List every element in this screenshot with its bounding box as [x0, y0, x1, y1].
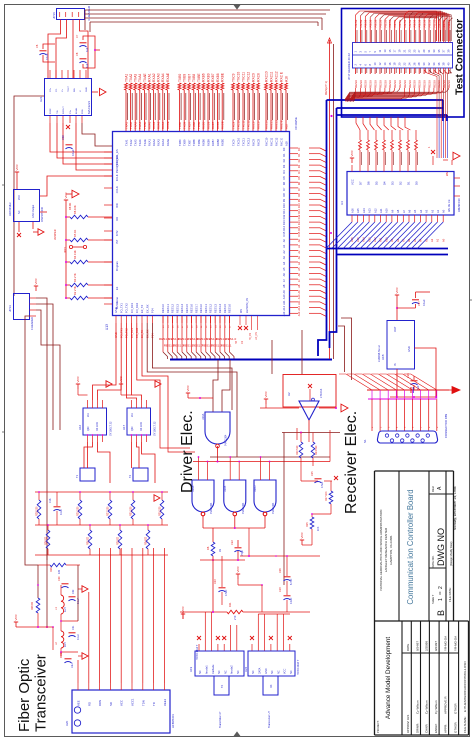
- svg-text:JP13: JP13: [8, 305, 12, 312]
- svg-text:RXA1: RXA1: [147, 73, 151, 82]
- svg-text:RXB9: RXB9: [206, 139, 210, 146]
- svg-text:U10A: U10A: [202, 413, 205, 420]
- svg-text:RES9: RES9: [388, 19, 392, 27]
- svg-text:A12: A12: [297, 305, 301, 310]
- svg-text:DWG NO: DWG NO: [436, 528, 446, 566]
- svg-text:A18: A18: [284, 141, 288, 146]
- svg-text:VCC: VCC: [119, 375, 123, 382]
- svg-text:D13: D13: [282, 220, 286, 225]
- svg-text:C26: C26: [279, 568, 282, 573]
- svg-text:RES9: RES9: [393, 80, 397, 88]
- svg-text:D1: D1: [282, 153, 286, 157]
- svg-text:Advance Model Development: Advance Model Development: [385, 637, 392, 720]
- svg-text:A3: A3: [297, 256, 301, 260]
- svg-text:TXA2: TXA2: [129, 139, 133, 146]
- svg-text:Communicat ion Controller Boar: Communicat ion Controller Board: [406, 489, 415, 604]
- svg-text:RXC10: RXC10: [264, 137, 268, 146]
- svg-text:RES9: RES9: [364, 80, 368, 88]
- svg-text:A11: A11: [282, 300, 286, 305]
- svg-text:EX_TX: EX_TX: [140, 305, 144, 313]
- svg-text:RXB7: RXB7: [211, 73, 215, 82]
- svg-text:4 HEADER: 4 HEADER: [87, 5, 91, 21]
- svg-text:NC: NC: [237, 670, 240, 674]
- svg-text:TXC11: TXC11: [241, 138, 245, 146]
- svg-text:TXB7: TXB7: [187, 139, 191, 146]
- svg-text:DATA: DATA: [259, 667, 262, 674]
- svg-text:RXBE: RXBE: [221, 72, 225, 82]
- svg-text:D: D: [406, 146, 410, 148]
- svg-text:D12: D12: [282, 214, 286, 219]
- svg-text:Cy Wilson: Cy Wilson: [416, 700, 420, 714]
- svg-text:RXB9: RXB9: [206, 121, 210, 129]
- svg-text:VCC: VCC: [284, 669, 287, 674]
- svg-text:A11: A11: [379, 208, 383, 213]
- svg-text:RXA4: RXA4: [161, 121, 165, 129]
- svg-text:A18: A18: [284, 124, 288, 129]
- svg-text:R27 130: R27 130: [107, 506, 110, 516]
- svg-text:TXA2: TXA2: [129, 74, 133, 82]
- svg-text:9/24/97: 9/24/97: [416, 641, 420, 651]
- svg-text:Monday, December 14, 1998: Monday, December 14, 1998: [453, 486, 457, 530]
- svg-text:FO_RX2: FO_RX2: [135, 302, 139, 313]
- svg-text:RES1.1: RES1.1: [166, 304, 170, 313]
- svg-text:TXA3: TXA3: [134, 74, 138, 82]
- svg-text:0.1uF: 0.1uF: [77, 633, 80, 640]
- svg-text:D6: D6: [282, 181, 286, 185]
- svg-text:LT1016: LT1016: [319, 388, 323, 398]
- svg-text:0.5uF: 0.5uF: [225, 589, 228, 596]
- svg-text:GND Output: GND Output: [32, 205, 35, 218]
- svg-text:INVAL: INVAL: [75, 107, 78, 114]
- svg-text:1uF: 1uF: [85, 47, 89, 52]
- svg-text:C1+: C1+: [70, 109, 72, 114]
- svg-text:RES1.5: RES1.5: [223, 304, 227, 313]
- svg-text:NATIONAL AERONAUTICS AND SP: NATIONAL AERONAUTICS AND SPACE ADMINISTR…: [379, 510, 383, 591]
- svg-text:TXB7: TXB7: [187, 74, 191, 82]
- svg-text:A10: A10: [282, 294, 286, 299]
- svg-text:R15: R15: [306, 522, 309, 527]
- svg-text:U10D: U10D: [254, 485, 257, 492]
- svg-text:LANGLEY RESEARCH CENTER: LANGLEY RESEARCH CENTER: [384, 527, 388, 572]
- svg-text:A15: A15: [356, 208, 360, 213]
- svg-text:RXC8: RXC8: [256, 121, 260, 129]
- svg-text:NC: NC: [252, 670, 255, 674]
- svg-text:R6: R6: [206, 546, 210, 550]
- svg-text:TXAE: TXAE: [143, 139, 147, 146]
- svg-text:RES9: RES9: [398, 80, 402, 88]
- svg-text:RXB8: RXB8: [216, 73, 220, 82]
- svg-text:R26 82: R26 82: [31, 601, 34, 610]
- svg-text:R4 13K: R4 13K: [73, 250, 77, 259]
- svg-text:R28 130: R28 130: [36, 506, 39, 516]
- svg-text:RXC E: RXC E: [279, 71, 283, 82]
- svg-text:TXAE: TXAE: [143, 73, 147, 82]
- svg-text:RXC9: RXC9: [251, 121, 255, 129]
- svg-text:NC: NC: [18, 210, 21, 214]
- svg-text:74AC1004: 74AC1004: [242, 502, 245, 514]
- svg-text:FON: FON: [82, 109, 84, 114]
- svg-text:D11: D11: [297, 209, 301, 214]
- svg-text:SY10ELT 22: SY10ELT 22: [109, 421, 113, 436]
- svg-text:C6: C6: [35, 44, 39, 48]
- svg-text:A2: A2: [430, 238, 434, 242]
- svg-text:VCC: VCC: [76, 375, 80, 382]
- svg-text:D15: D15: [297, 231, 301, 236]
- svg-text:0.1uF: 0.1uF: [290, 597, 293, 604]
- svg-text:NC: NC: [224, 670, 227, 674]
- svg-text:D15: D15: [282, 231, 286, 236]
- svg-text:D8: D8: [297, 193, 301, 197]
- svg-text:TXC9: TXC9: [231, 73, 235, 82]
- svg-text:U4: U4: [340, 201, 344, 205]
- svg-text:TXC10: TXC10: [236, 137, 240, 146]
- svg-text:RES9: RES9: [418, 80, 422, 88]
- svg-text:R30 82: R30 82: [87, 536, 90, 545]
- svg-text:RES9: RES9: [437, 19, 441, 27]
- svg-text:Transceiver U7: Transceiver U7: [268, 711, 271, 728]
- svg-text:VCC: VCC: [395, 286, 399, 293]
- svg-text:VCC1: VCC1: [131, 698, 135, 706]
- svg-text:RXC9: RXC9: [251, 139, 255, 146]
- svg-text:RXC11: RXC11: [269, 120, 273, 129]
- svg-text:RXB9: RXB9: [206, 73, 210, 82]
- svg-text:D4: D4: [297, 170, 301, 174]
- svg-text:GND: GND: [86, 87, 88, 92]
- svg-text:NC: NC: [199, 670, 202, 674]
- svg-text:RES1.6: RES1.6: [228, 304, 232, 313]
- svg-text:RES9: RES9: [374, 80, 378, 88]
- svg-text:TXB0: TXB0: [178, 139, 182, 146]
- svg-text:R25 130: R25 130: [77, 506, 80, 516]
- svg-text:130: 130: [58, 569, 61, 574]
- svg-text:D: D: [390, 146, 394, 148]
- svg-text:RXA4: RXA4: [161, 73, 165, 82]
- svg-text:R2 27K: R2 27K: [73, 286, 77, 295]
- svg-text:MS6H4T4000: MS6H4T4000: [41, 207, 44, 222]
- svg-text:RES9: RES9: [427, 19, 431, 27]
- svg-text:D13: D13: [297, 220, 301, 225]
- svg-text:C32: C32: [72, 589, 75, 594]
- svg-text:APPROV: ALS: APPROV: ALS: [406, 715, 410, 733]
- svg-text:TXA4: TXA4: [138, 139, 142, 146]
- svg-text:A0: A0: [282, 238, 286, 242]
- svg-text:0.5uF: 0.5uF: [321, 481, 324, 488]
- svg-text:RES1.4: RES1.4: [180, 304, 184, 313]
- svg-text:TXA3: TXA3: [134, 139, 138, 146]
- svg-text:Driver Elec.: Driver Elec.: [179, 410, 196, 493]
- svg-text:VCC: VCC: [350, 149, 354, 156]
- svg-text:RES1.2: RES1.2: [171, 304, 175, 313]
- svg-text:D14: D14: [297, 225, 301, 230]
- svg-text:A8: A8: [297, 284, 301, 288]
- svg-text:APPR:: APPR:: [444, 724, 448, 733]
- svg-text:DWG NO.: DWG NO.: [431, 555, 435, 568]
- svg-text:TD: TD: [152, 702, 156, 706]
- svg-text:RXB8: RXB8: [216, 139, 220, 146]
- svg-text:TXC9: TXC9: [231, 121, 235, 129]
- svg-text:D5: D5: [282, 176, 286, 180]
- svg-text:R29 82: R29 82: [117, 536, 120, 545]
- svg-text:VCC: VCC: [236, 565, 240, 572]
- svg-text:JUMPER: JUMPER: [53, 229, 57, 240]
- svg-text:D3: D3: [297, 164, 301, 168]
- svg-text:FO_RX1: FO_RX1: [130, 302, 134, 313]
- svg-text:TXB7: TXB7: [187, 122, 191, 129]
- svg-text:P14: P14: [151, 308, 155, 313]
- svg-text:Q0n: Q0n: [131, 426, 134, 431]
- svg-text:RES9: RES9: [369, 80, 373, 88]
- svg-text:GND: GND: [114, 307, 118, 313]
- svg-text:VCC: VCC: [186, 384, 190, 391]
- svg-text:RXA2: RXA2: [152, 121, 156, 129]
- svg-text:RES9: RES9: [437, 80, 441, 88]
- svg-text:WR: WR: [115, 203, 119, 207]
- svg-text:U10B: U10B: [224, 485, 227, 492]
- svg-text:RXA2: RXA2: [152, 139, 156, 146]
- svg-text:CHKR:: CHKR:: [425, 723, 429, 733]
- svg-text:RES9: RES9: [383, 19, 387, 27]
- svg-text:U18 64MHz: U18 64MHz: [8, 202, 12, 216]
- svg-text:C23: C23: [214, 579, 217, 584]
- svg-text:C2-: C2-: [56, 88, 58, 92]
- svg-text:HFBR 1414 T: HFBR 1414 T: [196, 644, 199, 660]
- svg-text:RES1.0: RES1.0: [226, 337, 237, 341]
- svg-text:RES9: RES9: [369, 19, 373, 27]
- svg-text:TXA2: TXA2: [129, 122, 133, 129]
- svg-text:U21: U21: [39, 96, 43, 102]
- svg-text:CONNECTOR DB9: CONNECTOR DB9: [444, 413, 448, 438]
- svg-text:RXC12: RXC12: [274, 71, 278, 82]
- svg-text:C19: C19: [279, 587, 282, 592]
- svg-text:D2: D2: [297, 159, 301, 163]
- svg-text:RXC9: RXC9: [251, 73, 255, 82]
- svg-text:74AC1004: 74AC1004: [210, 502, 213, 514]
- svg-text:A4: A4: [282, 261, 286, 265]
- svg-text:D2: D2: [282, 159, 286, 163]
- svg-text:YR-MO-DA: YR-MO-DA: [444, 636, 448, 651]
- svg-text:RES1.1: RES1.1: [221, 344, 232, 348]
- svg-text:D: D: [358, 146, 362, 148]
- svg-text:WE OE CE: WE OE CE: [448, 199, 451, 212]
- svg-text:RD: RD: [87, 702, 91, 706]
- svg-text:RXC8: RXC8: [256, 139, 260, 146]
- svg-text:Anode2: Anode2: [231, 665, 234, 674]
- svg-text:APPROVE R: APPROVE R: [444, 696, 448, 714]
- svg-text:A7: A7: [282, 278, 286, 282]
- svg-text:VCC: VCC: [181, 605, 185, 612]
- svg-text:TXB9: TXB9: [183, 139, 187, 146]
- svg-text:A9: A9: [297, 290, 301, 294]
- svg-text:RXOUT: RXOUT: [63, 106, 65, 114]
- svg-text:RXA1: RXA1: [147, 139, 151, 146]
- svg-text:R3 27K: R3 27K: [73, 273, 77, 282]
- svg-text:A1: A1: [282, 244, 286, 248]
- svg-text:LO_CS: LO_CS: [255, 332, 258, 340]
- svg-text:U19: U19: [189, 666, 193, 672]
- svg-text:RES9: RES9: [432, 80, 436, 88]
- svg-text:Receiver Elec.: Receiver Elec.: [343, 411, 360, 514]
- svg-text:6.7uF: 6.7uF: [290, 578, 293, 585]
- svg-text:R8 9K: R8 9K: [68, 203, 72, 210]
- svg-text:RES9: RES9: [378, 80, 382, 88]
- svg-text:U1B: U1B: [381, 354, 385, 360]
- svg-text:EEPROM_CS: EEPROM_CS: [246, 298, 249, 313]
- svg-text:D2: D2: [399, 181, 403, 185]
- svg-text:RES9: RES9: [398, 19, 402, 27]
- svg-text:VCC: VCC: [14, 613, 18, 620]
- svg-text:TXC11: TXC11: [241, 72, 245, 82]
- svg-text:RES9: RES9: [378, 19, 382, 27]
- svg-text:Init: Init: [115, 286, 119, 290]
- svg-text:A1: A1: [436, 238, 440, 242]
- svg-text:ENGR:: ENGR:: [434, 723, 438, 733]
- svg-text:A8: A8: [282, 284, 286, 288]
- svg-text:REV.: REV.: [431, 486, 435, 492]
- svg-text:NC: NC: [277, 670, 280, 674]
- svg-text:HFBR 2416 T: HFBR 2416 T: [297, 659, 300, 675]
- svg-text:TXB8: TXB8: [192, 74, 196, 82]
- svg-text:C35: C35: [61, 135, 65, 140]
- svg-text:VEE: VEE: [77, 700, 81, 706]
- svg-text:RES1.0: RES1.0: [199, 304, 203, 313]
- svg-text:A2: A2: [430, 209, 434, 213]
- svg-text:RES9: RES9: [418, 19, 422, 27]
- svg-text:AM29F010: AM29F010: [457, 198, 461, 212]
- svg-text:A5: A5: [282, 267, 286, 271]
- svg-text:PECL_TX: PECL_TX: [115, 161, 119, 173]
- svg-text:A10: A10: [385, 208, 389, 213]
- svg-text:RES9: RES9: [354, 80, 358, 88]
- svg-text:RES1.7: RES1.7: [194, 304, 198, 313]
- svg-text:A7: A7: [402, 209, 406, 213]
- svg-text:RXA3: RXA3: [157, 139, 161, 146]
- svg-text:TXB9: TXB9: [183, 122, 187, 129]
- svg-text:A7: A7: [297, 278, 301, 282]
- svg-text:TDN: TDN: [141, 700, 145, 706]
- svg-text:A10: A10: [297, 294, 301, 299]
- svg-text:0.1uF: 0.1uF: [60, 508, 63, 515]
- svg-text:U2: U2: [287, 392, 291, 396]
- svg-text:D0: D0: [415, 181, 419, 185]
- svg-text:RXC11: RXC11: [269, 137, 273, 146]
- svg-text:FO_TX1: FO_TX1: [119, 303, 123, 313]
- svg-text:TXB8: TXB8: [192, 139, 196, 146]
- svg-text:Transceiver: Transceiver: [33, 654, 50, 732]
- svg-text:TXC9: TXC9: [231, 139, 235, 146]
- svg-text:V-: V-: [80, 90, 82, 92]
- svg-text:WR: WR: [240, 309, 243, 313]
- svg-text:A13: A13: [282, 311, 286, 316]
- svg-text:TXA4: TXA4: [138, 74, 142, 82]
- svg-text:RES9: RES9: [374, 19, 378, 27]
- svg-text:D10: D10: [297, 203, 301, 208]
- svg-text:D5: D5: [375, 181, 379, 185]
- svg-text:D7: D7: [297, 187, 301, 191]
- svg-text:RXC10: RXC10: [264, 71, 268, 82]
- svg-text:D6: D6: [367, 181, 371, 185]
- svg-text:RES9: RES9: [423, 19, 427, 27]
- svg-text:YR-MO-DA: YR-MO-DA: [454, 636, 458, 651]
- svg-text:RDN: RDN: [98, 700, 102, 706]
- svg-text:A3: A3: [425, 209, 429, 213]
- svg-text:OF: OF: [438, 591, 442, 595]
- svg-text:RES9: RES9: [413, 80, 417, 88]
- svg-text:NC: NC: [218, 670, 221, 674]
- svg-text:C30: C30: [58, 576, 61, 581]
- svg-text:RXAE: RXAE: [166, 139, 170, 146]
- svg-text:FILE DATE:: FILE DATE:: [448, 587, 452, 602]
- svg-text:D5: D5: [297, 176, 301, 180]
- svg-text:INT2: INT2: [115, 230, 119, 236]
- svg-text:TX: TX: [221, 684, 224, 688]
- svg-text:TXC10: TXC10: [236, 72, 240, 82]
- svg-text:D7: D7: [359, 181, 363, 185]
- svg-text:1uH: 1uH: [64, 642, 67, 647]
- svg-text:RES1.5: RES1.5: [185, 304, 189, 313]
- svg-text:TXC11: TXC11: [241, 120, 245, 129]
- svg-text:D1: D1: [407, 181, 411, 185]
- svg-text:A13: A13: [297, 311, 301, 316]
- svg-text:A11: A11: [297, 300, 301, 305]
- svg-text:Program: Program: [115, 261, 119, 271]
- svg-text:RES9: RES9: [359, 80, 363, 88]
- svg-text:D0: D0: [297, 147, 301, 151]
- svg-text:INT: INT: [115, 239, 119, 244]
- svg-text:TXC12: TXC12: [246, 137, 250, 146]
- svg-text:A8: A8: [396, 209, 400, 213]
- svg-text:A1: A1: [436, 209, 440, 213]
- svg-text:R26 82: R26 82: [45, 536, 48, 545]
- svg-text:A1: A1: [297, 244, 301, 248]
- svg-text:270: 270: [233, 615, 237, 620]
- svg-text:D3: D3: [391, 181, 395, 185]
- svg-text:9/24/97: 9/24/97: [434, 641, 438, 651]
- svg-text:RES9: RES9: [388, 80, 392, 88]
- svg-text:A13: A13: [368, 208, 372, 213]
- svg-text:RXC E: RXC E: [279, 138, 283, 146]
- svg-text:RXC10: RXC10: [264, 120, 268, 129]
- svg-text:Cy Wilson: Cy Wilson: [425, 700, 429, 714]
- svg-text:A16: A16: [351, 208, 355, 213]
- svg-text:A6: A6: [282, 273, 286, 277]
- svg-text:C7: C7: [75, 34, 79, 38]
- svg-text:C2+: C2+: [50, 87, 52, 92]
- svg-text:TIN: TIN: [57, 110, 59, 114]
- svg-text:RES1.4: RES1.4: [218, 304, 222, 313]
- svg-text:Transmitter U7: Transmitter U7: [219, 711, 222, 728]
- svg-text:VCC: VCC: [34, 277, 38, 284]
- svg-text:Test Connector: Test Connector: [454, 19, 466, 95]
- svg-text:1uH: 1uH: [64, 607, 67, 612]
- svg-text:74AC1004: 74AC1004: [225, 434, 228, 446]
- svg-text:VEE1: VEE1: [163, 698, 167, 706]
- svg-text:JP16: JP16: [52, 12, 56, 19]
- svg-text:TXBE: TXBE: [197, 139, 201, 146]
- svg-text:GND: GND: [265, 668, 268, 674]
- svg-text:FO_TX2: FO_TX2: [125, 303, 129, 313]
- svg-text:C25: C25: [311, 471, 314, 476]
- svg-text:TXC10: TXC10: [236, 120, 240, 129]
- svg-text:74AC1004: 74AC1004: [272, 502, 275, 514]
- svg-text:NC: NC: [271, 670, 274, 674]
- svg-text:D11: D11: [282, 209, 286, 214]
- svg-text:D9: D9: [297, 198, 301, 202]
- svg-text:Fiber Optic: Fiber Optic: [16, 658, 33, 732]
- svg-text:RES1.3: RES1.3: [213, 304, 217, 313]
- svg-text:VCC: VCC: [351, 179, 355, 185]
- svg-text:RES9: RES9: [408, 19, 412, 27]
- svg-text:C18: C18: [49, 498, 52, 503]
